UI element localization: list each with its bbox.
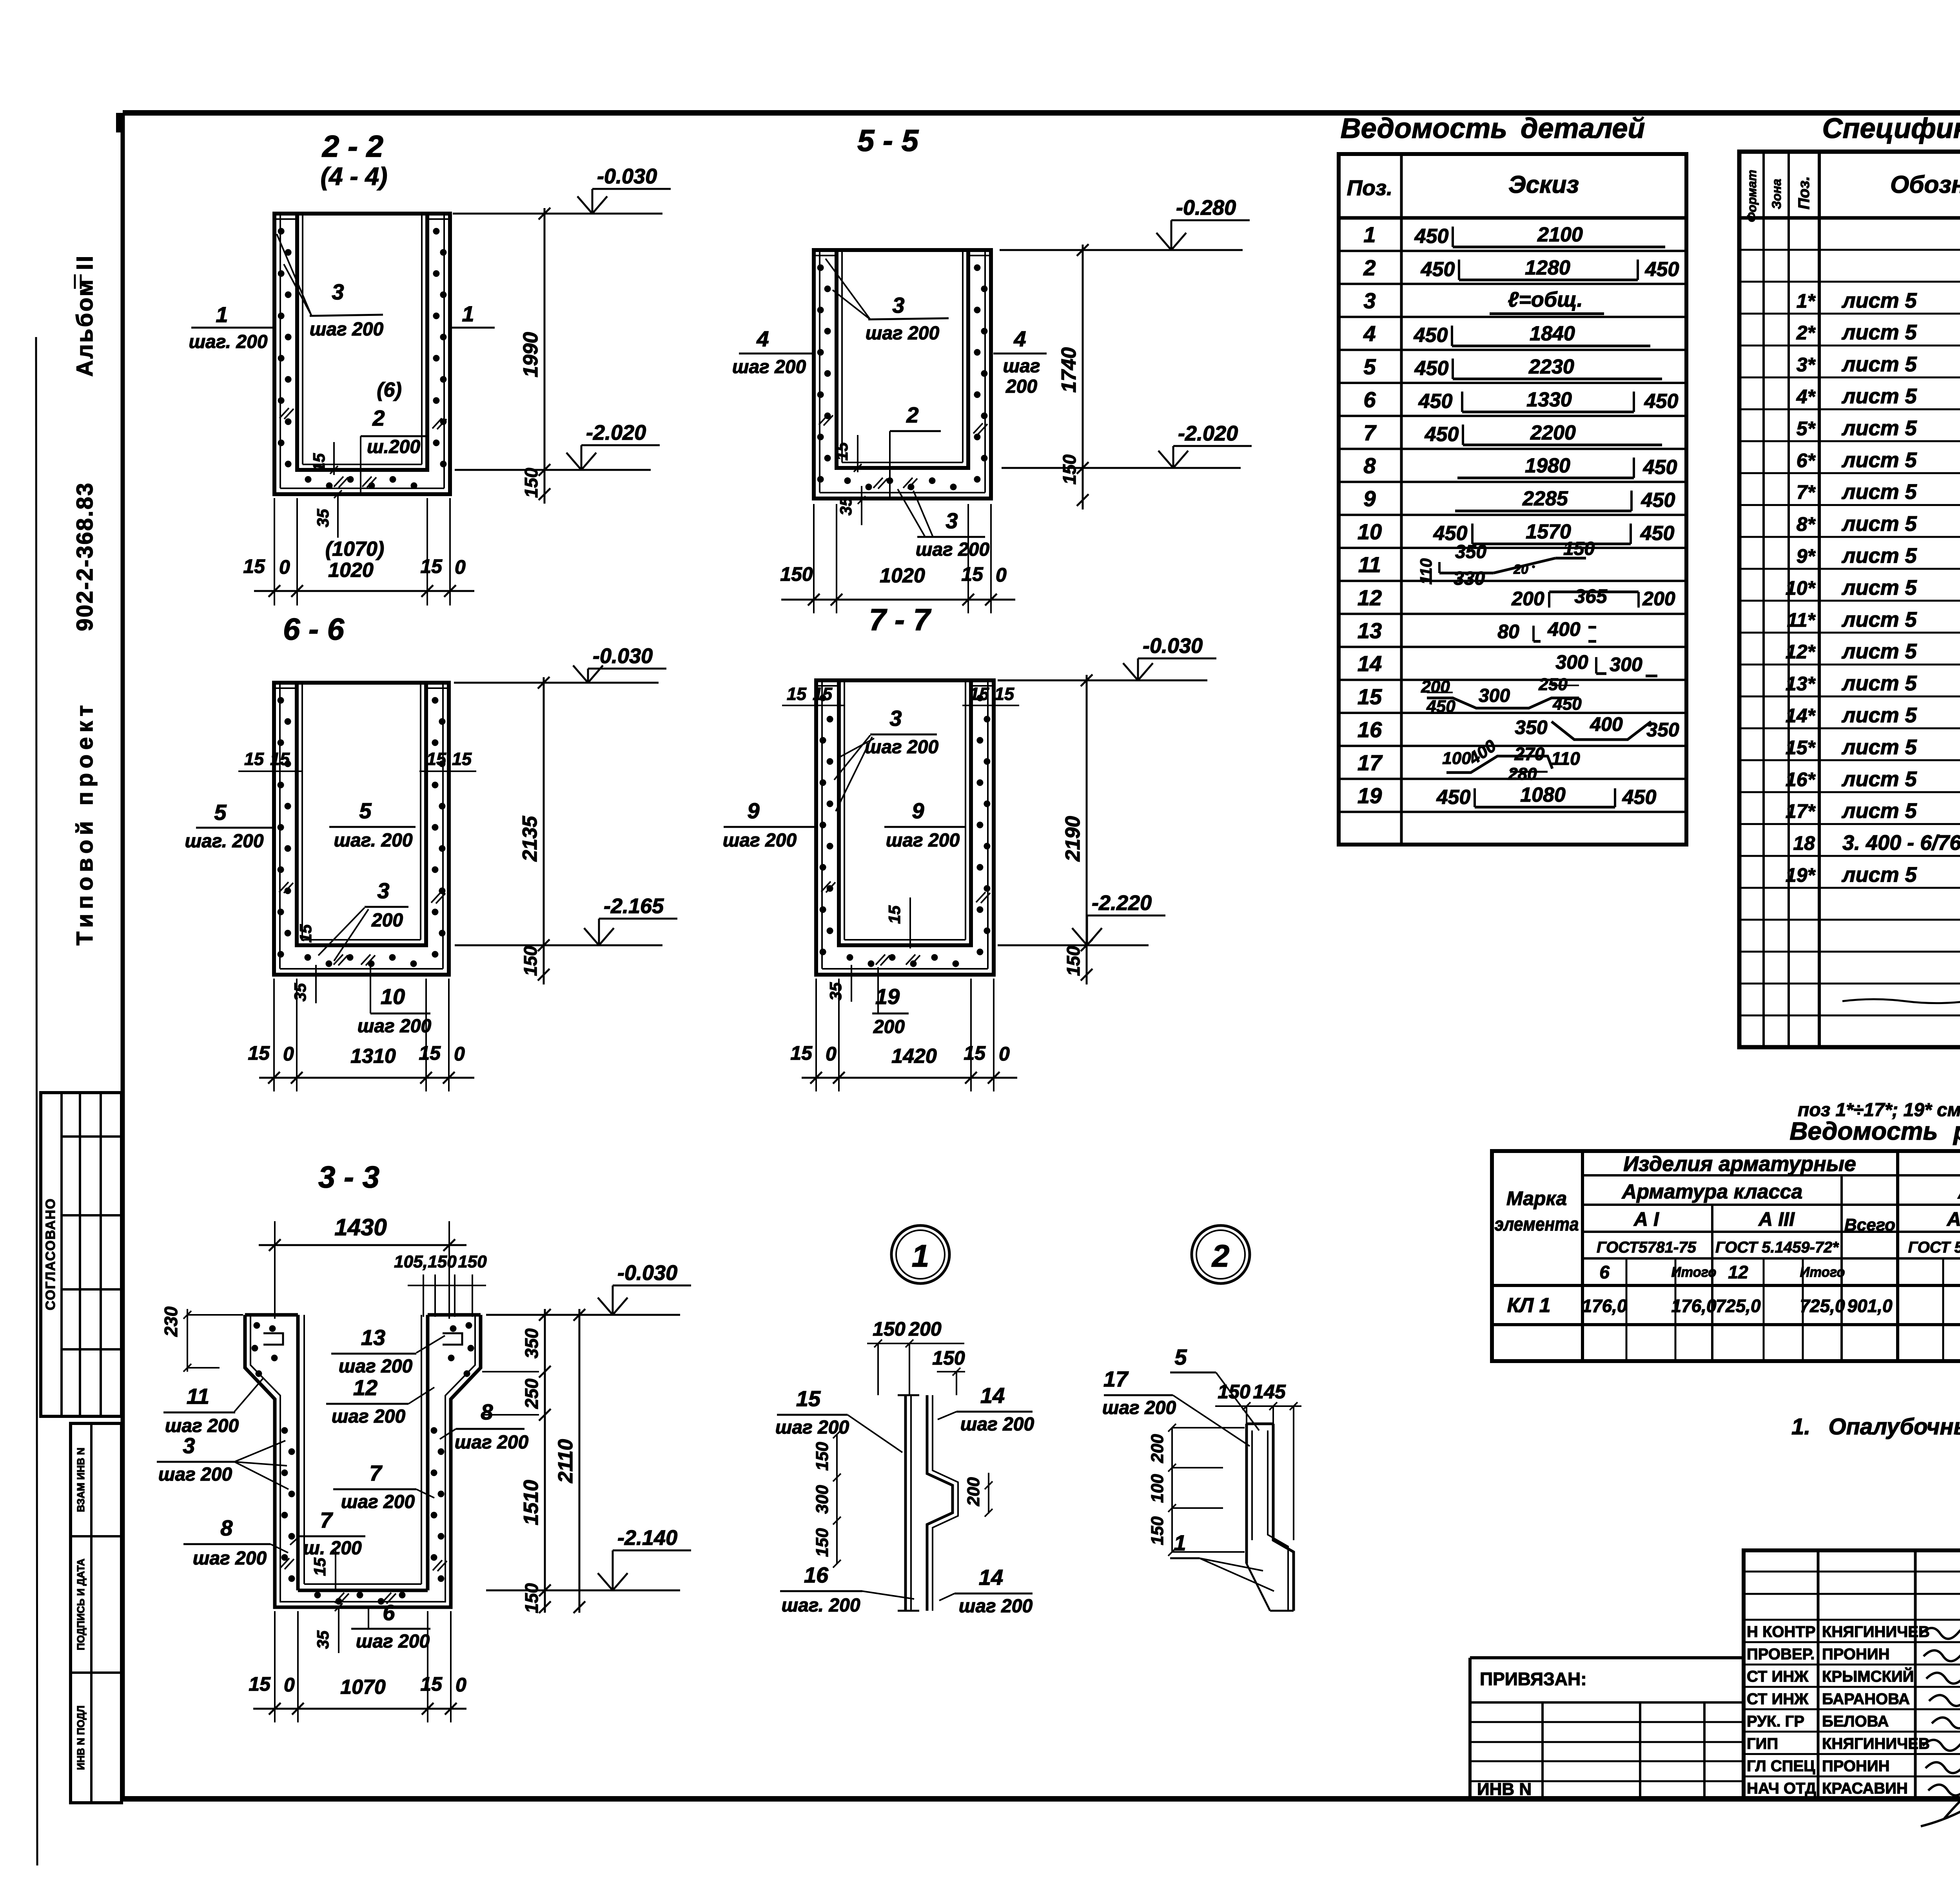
svg-text:Обозначение: Обозначение bbox=[1890, 171, 1960, 198]
svg-text:А I: А I bbox=[1633, 1208, 1659, 1230]
svg-text:400: 400 bbox=[1547, 618, 1581, 640]
svg-text:15: 15 bbox=[995, 684, 1014, 704]
svg-text:ГОСТ 5781-75: ГОСТ 5781-75 bbox=[1908, 1239, 1960, 1256]
svg-text:15: 15 bbox=[270, 749, 290, 769]
svg-text:8*: 8* bbox=[1797, 513, 1816, 535]
svg-text:2: 2 bbox=[372, 406, 385, 430]
svg-text:6 - 6: 6 - 6 bbox=[283, 612, 345, 646]
detail 2 sketch stepped wall bbox=[1247, 1423, 1273, 1425]
svg-text:725,0: 725,0 bbox=[1715, 1296, 1761, 1316]
svg-text:Итого: Итого bbox=[1800, 1264, 1845, 1280]
svg-text:200: 200 bbox=[371, 910, 403, 931]
svg-text:СТ ИНЖ: СТ ИНЖ bbox=[1747, 1690, 1809, 1708]
svg-text:шаг 200: шаг 200 bbox=[310, 319, 384, 340]
svg-text:35: 35 bbox=[291, 983, 309, 1001]
svg-text:1080: 1080 bbox=[1520, 784, 1566, 807]
section 3-3 right dim 2110 bbox=[579, 1309, 581, 1613]
svg-text:200: 200 bbox=[964, 1477, 983, 1506]
svg-text:КРАСАВИН: КРАСАВИН bbox=[1822, 1780, 1908, 1797]
svg-text:17: 17 bbox=[1103, 1367, 1129, 1391]
svg-text:176,0: 176,0 bbox=[1671, 1296, 1717, 1316]
svg-text:150: 150 bbox=[458, 1252, 487, 1271]
svg-text:0: 0 bbox=[283, 1043, 294, 1065]
svg-text:15: 15 bbox=[885, 905, 904, 924]
svg-text:3: 3 bbox=[946, 508, 958, 533]
svg-text:шаг 200: шаг 200 bbox=[732, 357, 806, 377]
svg-text:1*: 1* bbox=[1797, 290, 1816, 312]
svg-text:шаг 200: шаг 200 bbox=[865, 737, 939, 758]
svg-text:450: 450 bbox=[1418, 390, 1453, 413]
svg-text:300: 300 bbox=[1610, 654, 1642, 676]
svg-text:шаг 200: шаг 200 bbox=[165, 1416, 239, 1436]
svg-text:16*: 16* bbox=[1786, 769, 1816, 790]
svg-text:110: 110 bbox=[1417, 558, 1435, 585]
svg-text:300: 300 bbox=[813, 1485, 832, 1514]
svg-text:12*: 12* bbox=[1786, 641, 1816, 663]
svg-text:17: 17 bbox=[1357, 750, 1383, 775]
svg-text:лист 5: лист 5 bbox=[1841, 576, 1917, 599]
svg-text:Поз.: Поз. bbox=[1795, 176, 1813, 210]
paper fold edge line bbox=[36, 337, 37, 1865]
svg-text:11*: 11* bbox=[1787, 609, 1816, 631]
section 2-2 body bbox=[274, 214, 450, 494]
section 2-2 bottom dims bbox=[254, 590, 474, 592]
svg-text:450: 450 bbox=[1425, 423, 1459, 446]
svg-text:шаг. 200: шаг. 200 bbox=[189, 332, 267, 352]
svg-text:1430: 1430 bbox=[334, 1214, 387, 1240]
svg-text:450: 450 bbox=[1644, 390, 1679, 413]
svg-text:12: 12 bbox=[353, 1375, 377, 1400]
svg-text:2: 2 bbox=[1211, 1238, 1230, 1273]
svg-text:КЛ 1: КЛ 1 bbox=[1507, 1294, 1550, 1317]
specification table frame bbox=[1739, 152, 1960, 1047]
svg-text:176,0: 176,0 bbox=[1582, 1296, 1627, 1316]
svg-text:БЕЛОВА: БЕЛОВА bbox=[1822, 1713, 1889, 1730]
svg-text:35: 35 bbox=[826, 982, 845, 1001]
svg-text:450: 450 bbox=[1645, 258, 1679, 281]
svg-text:150: 150 bbox=[932, 1347, 965, 1369]
svg-text:450: 450 bbox=[1414, 357, 1449, 380]
svg-text:Арматура класса: Арматура класса bbox=[1957, 1180, 1960, 1203]
svg-text:150: 150 bbox=[1063, 946, 1083, 976]
svg-text:16: 16 bbox=[804, 1563, 829, 1587]
svg-text:150: 150 bbox=[1059, 454, 1080, 484]
section 6-6 body bbox=[274, 683, 449, 975]
svg-text:1020: 1020 bbox=[328, 559, 374, 582]
svg-text:9*: 9* bbox=[1797, 545, 1816, 567]
svg-text:150: 150 bbox=[1148, 1516, 1167, 1545]
svg-text:35: 35 bbox=[837, 497, 855, 515]
svg-text:3: 3 bbox=[889, 706, 902, 731]
svg-text:КНЯГИНИЧЕВ: КНЯГИНИЧЕВ bbox=[1822, 1623, 1930, 1641]
svg-text:0: 0 bbox=[279, 556, 290, 578]
svg-text:лист 5: лист 5 bbox=[1841, 544, 1917, 567]
svg-text:18: 18 bbox=[1793, 832, 1815, 854]
detail 1 left dims 150 300 150 bbox=[836, 1434, 838, 1564]
svg-text:шаг: шаг bbox=[1003, 356, 1040, 377]
svg-text:15: 15 bbox=[787, 684, 807, 704]
steel table frame bbox=[1492, 1151, 1960, 1361]
svg-text:150: 150 bbox=[520, 946, 541, 976]
svg-text:шаг 200: шаг 200 bbox=[158, 1464, 232, 1485]
svg-text:1330: 1330 bbox=[1526, 388, 1572, 411]
svg-text:15: 15 bbox=[969, 684, 989, 704]
svg-text:5*: 5* bbox=[1797, 417, 1816, 439]
svg-text:ИНВ N ПОДЛ: ИНВ N ПОДЛ bbox=[75, 1706, 87, 1770]
svg-text:КРЫМСКИЙ: КРЫМСКИЙ bbox=[1822, 1667, 1914, 1685]
svg-text:КНЯГИНИЧЕВ: КНЯГИНИЧЕВ bbox=[1822, 1735, 1930, 1753]
svg-text:200: 200 bbox=[873, 1017, 905, 1037]
svg-text:А-I: А-I bbox=[1946, 1208, 1960, 1230]
svg-text:300: 300 bbox=[1555, 651, 1588, 673]
svg-text:150: 150 bbox=[873, 1318, 906, 1340]
svg-text:2*: 2* bbox=[1796, 322, 1816, 344]
svg-text:15: 15 bbox=[420, 555, 443, 577]
svg-text:11: 11 bbox=[187, 1384, 209, 1409]
svg-text:Итого: Итого bbox=[1671, 1264, 1717, 1280]
section 3-3 body outline bbox=[245, 1315, 481, 1607]
svg-text:250: 250 bbox=[521, 1378, 542, 1409]
svg-text:ИНВ N: ИНВ N bbox=[1477, 1780, 1532, 1799]
svg-text:4: 4 bbox=[1363, 321, 1376, 346]
svg-text:1840: 1840 bbox=[1530, 323, 1575, 345]
svg-text:19: 19 bbox=[1357, 783, 1382, 808]
svg-text:12: 12 bbox=[1357, 585, 1382, 610]
svg-text:7: 7 bbox=[320, 1508, 333, 1532]
svg-text:15: 15 bbox=[452, 749, 472, 769]
svg-text:13: 13 bbox=[361, 1325, 385, 1350]
svg-text:350: 350 bbox=[1455, 542, 1486, 562]
svg-text:1990: 1990 bbox=[519, 332, 542, 377]
svg-text:300: 300 bbox=[1479, 685, 1510, 706]
svg-text:35: 35 bbox=[314, 509, 332, 527]
detail 1 circle bbox=[891, 1225, 949, 1283]
svg-text:лист 5: лист 5 bbox=[1841, 672, 1917, 695]
svg-text:(1070): (1070) bbox=[325, 538, 384, 560]
svg-text:шаг 200: шаг 200 bbox=[886, 830, 960, 851]
svg-text:19*: 19* bbox=[1786, 864, 1816, 886]
svg-text:ПРОНИН: ПРОНИН bbox=[1822, 1646, 1890, 1663]
svg-text:элемента: элемента bbox=[1495, 1214, 1579, 1235]
svg-text:шаг 200: шаг 200 bbox=[916, 539, 990, 560]
svg-text:2190: 2190 bbox=[1062, 816, 1084, 862]
svg-text:7 - 7: 7 - 7 bbox=[869, 602, 932, 637]
svg-text:лист 5: лист 5 bbox=[1841, 640, 1917, 663]
svg-text:450: 450 bbox=[1436, 786, 1471, 809]
svg-text:1280: 1280 bbox=[1525, 256, 1570, 279]
svg-text:15*: 15* bbox=[1786, 736, 1816, 758]
svg-text:шаг 200: шаг 200 bbox=[339, 1356, 413, 1377]
svg-text:200: 200 bbox=[1642, 587, 1675, 609]
svg-text:902-2-368.83: 902-2-368.83 bbox=[72, 482, 98, 631]
svg-text:шаг 200: шаг 200 bbox=[866, 323, 940, 344]
svg-text:14*: 14* bbox=[1786, 705, 1816, 727]
svg-text:150: 150 bbox=[780, 563, 813, 585]
svg-text:2230: 2230 bbox=[1528, 355, 1574, 378]
svg-text:2: 2 bbox=[1363, 255, 1376, 280]
svg-text:5: 5 bbox=[359, 798, 372, 823]
svg-text:шаг 200: шаг 200 bbox=[775, 1417, 849, 1438]
svg-text:450: 450 bbox=[1640, 522, 1675, 545]
soglasovano table bbox=[41, 1093, 122, 1416]
svg-text:15: 15 bbox=[833, 442, 851, 460]
svg-text:БАРАНОВА: БАРАНОВА bbox=[1822, 1690, 1910, 1708]
svg-text:шаг 200: шаг 200 bbox=[332, 1406, 406, 1427]
svg-text:Эскиз: Эскиз bbox=[1508, 171, 1579, 198]
svg-text:200: 200 bbox=[1421, 677, 1450, 696]
svg-text:Альбом II: Альбом II bbox=[72, 254, 98, 377]
svg-text:-0.030: -0.030 bbox=[593, 644, 653, 668]
svg-text:450: 450 bbox=[1622, 786, 1657, 809]
svg-text:80: 80 bbox=[1497, 621, 1519, 643]
svg-text:шаг 200: шаг 200 bbox=[1102, 1398, 1176, 1418]
svg-text:лист 5: лист 5 bbox=[1841, 384, 1917, 408]
svg-text:450: 450 bbox=[1414, 324, 1448, 347]
svg-text:6: 6 bbox=[383, 1600, 395, 1625]
section 7-7 body bbox=[816, 680, 994, 975]
section 6-6 right dim 2135/150 bbox=[543, 677, 545, 984]
svg-text:150: 150 bbox=[521, 1583, 542, 1613]
svg-text:2110: 2110 bbox=[554, 1439, 577, 1483]
svg-text:шаг. 200: шаг. 200 bbox=[185, 831, 263, 852]
svg-text:Арматура класса: Арматура класса bbox=[1621, 1180, 1803, 1203]
svg-text:15: 15 bbox=[426, 749, 446, 769]
svg-text:3 - 3: 3 - 3 bbox=[318, 1160, 379, 1194]
svg-text:10*: 10* bbox=[1786, 577, 1816, 599]
svg-text:14: 14 bbox=[979, 1565, 1003, 1590]
svg-text:5: 5 bbox=[1174, 1345, 1187, 1369]
svg-text:1: 1 bbox=[1363, 222, 1376, 247]
svg-text:150: 150 bbox=[813, 1528, 832, 1557]
svg-text:2285: 2285 bbox=[1522, 488, 1568, 510]
svg-text:лист 5: лист 5 bbox=[1841, 863, 1917, 886]
svg-text:3. 400 - 6/76: 3. 400 - 6/76 bbox=[1842, 831, 1960, 855]
svg-text:(4 - 4): (4 - 4) bbox=[321, 162, 388, 190]
svg-text:0: 0 bbox=[456, 1674, 466, 1696]
section 3-3 wall dots bbox=[281, 1427, 288, 1434]
svg-text:лист 5: лист 5 bbox=[1841, 353, 1917, 376]
svg-text:15: 15 bbox=[420, 1673, 443, 1695]
svg-text:шаг 200: шаг 200 bbox=[723, 830, 797, 851]
svg-text:200: 200 bbox=[1511, 587, 1544, 609]
svg-text:5: 5 bbox=[214, 800, 227, 825]
svg-text:7: 7 bbox=[369, 1461, 383, 1485]
svg-text:СТ ИНЖ: СТ ИНЖ bbox=[1747, 1668, 1809, 1685]
svg-text:0: 0 bbox=[826, 1043, 837, 1065]
svg-text:2100: 2100 bbox=[1537, 223, 1583, 246]
svg-text:15: 15 bbox=[244, 749, 264, 769]
svg-text:150: 150 bbox=[813, 1442, 832, 1471]
svg-text:150: 150 bbox=[1218, 1381, 1250, 1403]
svg-text:230: 230 bbox=[161, 1306, 181, 1337]
svg-text:ГИП: ГИП bbox=[1747, 1735, 1778, 1753]
svg-text:1: 1 bbox=[912, 1238, 929, 1273]
svg-text:901,0: 901,0 bbox=[1847, 1296, 1893, 1316]
svg-text:365: 365 bbox=[1574, 585, 1608, 607]
svg-text:ПРОНИН: ПРОНИН bbox=[1822, 1758, 1890, 1775]
svg-text:19: 19 bbox=[875, 984, 900, 1009]
svg-text:12: 12 bbox=[1728, 1262, 1748, 1282]
svg-text:2: 2 bbox=[906, 402, 918, 427]
svg-text:17*: 17* bbox=[1786, 800, 1816, 822]
svg-text:6: 6 bbox=[1599, 1262, 1610, 1282]
title block staff rows bbox=[1744, 1571, 1960, 1573]
svg-text:15: 15 bbox=[813, 684, 833, 704]
detail 2 circle bbox=[1192, 1225, 1250, 1283]
svg-text:1980: 1980 bbox=[1525, 455, 1570, 477]
svg-text:лист 5: лист 5 bbox=[1841, 448, 1917, 472]
svg-text:ГЛ СПЕЦ: ГЛ СПЕЦ bbox=[1747, 1758, 1815, 1775]
svg-text:270: 270 bbox=[1514, 743, 1545, 764]
svg-text:-2.165: -2.165 bbox=[604, 894, 664, 918]
svg-text:8: 8 bbox=[1363, 453, 1376, 478]
svg-text:-2.020: -2.020 bbox=[1178, 422, 1238, 445]
svg-text:10: 10 bbox=[1357, 519, 1382, 544]
svg-text:150: 150 bbox=[521, 468, 541, 498]
svg-text:лист 5: лист 5 bbox=[1841, 799, 1917, 823]
svg-text:6: 6 bbox=[1363, 387, 1376, 412]
title block staff columns bbox=[1817, 1550, 1820, 1799]
svg-text:0: 0 bbox=[284, 1674, 295, 1696]
svg-text:450: 450 bbox=[1641, 489, 1675, 512]
svg-text:1310: 1310 bbox=[350, 1045, 396, 1068]
section 5-5 right dim 1740/150 bbox=[1082, 245, 1084, 509]
big signature squiggle bbox=[1921, 1752, 1960, 1826]
svg-text:15: 15 bbox=[419, 1042, 441, 1064]
svg-text:15: 15 bbox=[964, 1042, 986, 1064]
svg-text:8: 8 bbox=[481, 1399, 493, 1424]
svg-text:ш.200: ш.200 bbox=[367, 437, 420, 457]
section 7-7 right dim 2190/150 bbox=[1086, 675, 1088, 984]
svg-text:ℓ=общ.: ℓ=общ. bbox=[1508, 288, 1583, 312]
svg-text:9: 9 bbox=[1363, 486, 1376, 511]
svg-text:шаг 200: шаг 200 bbox=[341, 1492, 415, 1512]
svg-text:2135: 2135 bbox=[519, 816, 541, 862]
svg-text:16: 16 bbox=[1357, 717, 1382, 742]
svg-text:лист 5: лист 5 bbox=[1841, 735, 1917, 759]
svg-text:Поз.: Поз. bbox=[1347, 176, 1393, 200]
section 3-3 bottom dims bbox=[253, 1708, 466, 1710]
specification squiggle in betonrow bbox=[1842, 999, 1960, 1003]
svg-text:-0.030: -0.030 bbox=[617, 1261, 677, 1285]
svg-text:14: 14 bbox=[1357, 651, 1382, 676]
svg-text:1740: 1740 bbox=[1058, 347, 1080, 393]
svg-text:0: 0 bbox=[455, 556, 466, 578]
svg-text:ВЗАМ ИНВ N: ВЗАМ ИНВ N bbox=[75, 1448, 87, 1512]
svg-text:3: 3 bbox=[332, 279, 344, 304]
svg-text:1510: 1510 bbox=[520, 1480, 543, 1525]
svg-text:0: 0 bbox=[999, 1043, 1010, 1065]
svg-text:ПОДПИСЬ И ДАТА: ПОДПИСЬ И ДАТА bbox=[75, 1559, 87, 1650]
svg-text:15: 15 bbox=[248, 1042, 270, 1064]
privyazan table bbox=[1470, 1656, 1744, 1659]
section 7-7 bottom dims bbox=[802, 1077, 1017, 1079]
svg-text:200: 200 bbox=[1005, 376, 1037, 397]
svg-text:лист 5: лист 5 bbox=[1841, 321, 1917, 344]
svg-text:1. Опалубочный чертеж см. КЖ-4: 1. Опалубочный чертеж см. КЖ-4 bbox=[1791, 1414, 1960, 1439]
svg-text:150: 150 bbox=[1563, 538, 1595, 559]
svg-text:15: 15 bbox=[296, 924, 315, 943]
svg-text:Ведомость деталей: Ведомость деталей bbox=[1341, 113, 1645, 144]
svg-text:шаг 200: шаг 200 bbox=[358, 1016, 432, 1037]
inv table bbox=[71, 1423, 122, 1803]
svg-text:35: 35 bbox=[314, 1630, 332, 1649]
svg-text:шаг 200: шаг 200 bbox=[193, 1548, 267, 1569]
svg-text:1070: 1070 bbox=[340, 1676, 386, 1699]
svg-text:-2.220: -2.220 bbox=[1092, 891, 1152, 915]
section 5-5 body bbox=[814, 250, 991, 499]
svg-text:400: 400 bbox=[1590, 713, 1623, 735]
svg-text:1420: 1420 bbox=[891, 1045, 937, 1068]
svg-text:Типовой проект: Типовой проект bbox=[72, 700, 98, 945]
title block outer bbox=[1744, 1550, 1960, 1799]
svg-text:Ведомость расхода стали на эле: Ведомость расхода стали на элемент , кг bbox=[1789, 1117, 1960, 1145]
svg-text:7: 7 bbox=[1363, 420, 1377, 445]
svg-text:250: 250 bbox=[1538, 675, 1568, 694]
svg-text:9: 9 bbox=[747, 798, 759, 823]
svg-text:ГОСТ 5.1459-72*: ГОСТ 5.1459-72* bbox=[1715, 1239, 1839, 1256]
svg-text:150: 150 bbox=[428, 1252, 457, 1271]
svg-text:100: 100 bbox=[1148, 1474, 1167, 1503]
svg-text:15: 15 bbox=[310, 453, 328, 471]
svg-text:15: 15 bbox=[310, 1557, 329, 1576]
svg-text:350: 350 bbox=[521, 1328, 542, 1358]
svg-text:А III: А III bbox=[1758, 1208, 1795, 1230]
svg-text:НАЧ ОТД: НАЧ ОТД bbox=[1747, 1780, 1816, 1797]
svg-text:СОГЛАСОВАНО: СОГЛАСОВАНО bbox=[43, 1198, 58, 1311]
svg-text:Формат: Формат bbox=[1745, 170, 1759, 222]
svg-text:5: 5 bbox=[1363, 354, 1376, 379]
svg-text:450: 450 bbox=[1426, 697, 1455, 716]
svg-text:200: 200 bbox=[1148, 1434, 1167, 1463]
svg-text:шаг 200: шаг 200 bbox=[959, 1596, 1033, 1617]
svg-text:(6): (6) bbox=[377, 379, 402, 401]
svg-text:15: 15 bbox=[961, 563, 984, 585]
svg-text:9: 9 bbox=[912, 798, 924, 823]
svg-text:-0.030: -0.030 bbox=[597, 165, 657, 188]
svg-text:450: 450 bbox=[1643, 456, 1677, 479]
svg-text:15: 15 bbox=[796, 1386, 821, 1411]
svg-text:4: 4 bbox=[1013, 326, 1026, 351]
svg-text:280: 280 bbox=[1508, 764, 1537, 783]
section 2-2 right dim 1990/150 bbox=[544, 208, 546, 504]
svg-text:ГОСТ5781-75: ГОСТ5781-75 bbox=[1597, 1239, 1696, 1256]
svg-text:лист 5: лист 5 bbox=[1841, 608, 1917, 631]
svg-text:-2.140: -2.140 bbox=[617, 1526, 677, 1550]
vedomost detaley table frame bbox=[1339, 154, 1686, 845]
svg-text:ПРОВЕР.: ПРОВЕР. bbox=[1747, 1646, 1815, 1663]
section 3-3 right dims 350 250 1510 150 bbox=[544, 1309, 546, 1613]
svg-text:ПРИВЯЗАН:: ПРИВЯЗАН: bbox=[1480, 1669, 1587, 1689]
svg-text:15: 15 bbox=[790, 1042, 813, 1064]
svg-text:20: 20 bbox=[1513, 562, 1528, 577]
svg-text:8: 8 bbox=[220, 1515, 233, 1540]
svg-text:шаг 200: шаг 200 bbox=[356, 1631, 430, 1652]
svg-text:3: 3 bbox=[183, 1433, 195, 1458]
svg-text:6*: 6* bbox=[1797, 450, 1816, 471]
svg-text:330: 330 bbox=[1454, 568, 1485, 589]
svg-text:Всего: Всего bbox=[1844, 1215, 1895, 1235]
svg-text:0: 0 bbox=[454, 1043, 465, 1065]
svg-text:шаг 200: шаг 200 bbox=[455, 1432, 529, 1453]
svg-text:200: 200 bbox=[908, 1318, 942, 1340]
svg-text:3: 3 bbox=[377, 878, 389, 903]
svg-text:3: 3 bbox=[892, 293, 904, 317]
svg-text:2200: 2200 bbox=[1530, 421, 1576, 444]
svg-text:15: 15 bbox=[1357, 684, 1382, 709]
svg-text:105,: 105, bbox=[394, 1252, 428, 1271]
svg-text:1: 1 bbox=[216, 302, 228, 327]
